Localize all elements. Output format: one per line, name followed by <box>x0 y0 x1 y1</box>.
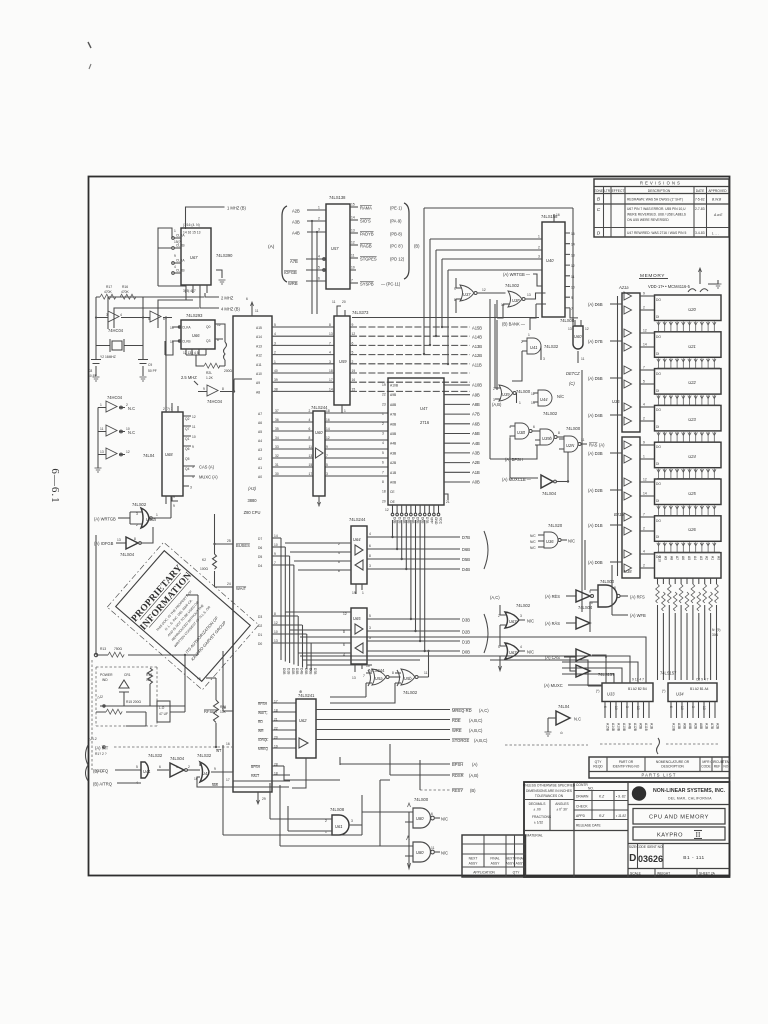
svg-text:1: 1 <box>643 455 645 459</box>
svg-text:12: 12 <box>482 288 486 292</box>
svg-text:20: 20 <box>382 499 386 503</box>
svg-text:1: 1 <box>274 360 276 364</box>
svg-text:1.2K: 1.2K <box>206 376 214 380</box>
svg-text:11: 11 <box>571 275 575 279</box>
svg-text:A3B: A3B <box>677 723 681 730</box>
svg-text:74HC04: 74HC04 <box>108 328 124 333</box>
svg-text:16: 16 <box>226 742 230 746</box>
svg-text:NEXT: NEXT <box>506 857 515 861</box>
svg-text:U3F: U3F <box>512 298 520 303</box>
svg-text:12: 12 <box>192 415 196 419</box>
svg-text:13: 13 <box>274 639 278 643</box>
svg-text:19: 19 <box>352 591 356 595</box>
svg-text:B1 A2 B1 A4: B1 A2 B1 A4 <box>690 687 709 691</box>
svg-text:(B): (B) <box>470 788 476 793</box>
svg-text:10K: 10K <box>220 710 227 714</box>
svg-text:A0B: A0B <box>472 480 480 485</box>
svg-text:(A) MUXCLB —: (A) MUXCLB — <box>502 477 532 482</box>
svg-text:U68: U68 <box>165 452 173 457</box>
svg-text:9: 9 <box>352 323 354 327</box>
svg-text:A12: A12 <box>256 354 262 358</box>
svg-text:74HC04: 74HC04 <box>107 395 123 400</box>
svg-text:U47: U47 <box>420 406 428 411</box>
svg-text:6: 6 <box>369 544 371 548</box>
svg-text:(A) D1B: (A) D1B <box>588 523 603 528</box>
svg-text:9: 9 <box>643 441 645 445</box>
svg-text:17: 17 <box>226 778 230 782</box>
svg-text:4: 4 <box>274 332 276 336</box>
svg-text:HALT: HALT <box>251 774 259 778</box>
svg-text:R.Z: R.Z <box>599 814 605 818</box>
svg-text:DRAWN: DRAWN <box>576 795 589 799</box>
svg-text:A8B: A8B <box>390 403 397 407</box>
svg-text:5: 5 <box>318 266 320 270</box>
svg-text:7: 7 <box>274 561 276 565</box>
svg-text:74HC04: 74HC04 <box>207 399 223 404</box>
svg-text:2: 2 <box>352 360 354 364</box>
svg-text:KAYPRO: KAYPRO <box>657 833 683 839</box>
svg-text:RDSR: RDSR <box>452 773 464 778</box>
svg-text:R26: R26 <box>220 705 226 709</box>
svg-text:D7: D7 <box>258 537 262 541</box>
svg-text:2: 2 <box>382 422 384 426</box>
svg-text:△J2: △J2 <box>97 695 103 699</box>
svg-text:U67: U67 <box>190 255 198 260</box>
svg-text:74LS08: 74LS08 <box>560 318 575 323</box>
svg-text:A1B: A1B <box>650 723 654 730</box>
svg-text:CAS (A): CAS (A) <box>199 465 215 470</box>
svg-text:A2B: A2B <box>390 461 397 465</box>
svg-text:MREQ·RD: MREQ·RD <box>452 708 472 713</box>
svg-text:3| 5| 4| 7: 3| 5| 4| 7 <box>183 289 196 293</box>
svg-text:22: 22 <box>382 393 386 397</box>
svg-text:DO: DO <box>656 335 661 339</box>
svg-text:A7: A7 <box>258 412 262 416</box>
svg-text:15: 15 <box>352 387 356 391</box>
svg-text:DESCRIPTION: DESCRIPTION <box>648 189 671 193</box>
svg-text:D0B: D0B <box>393 517 397 524</box>
svg-text:3: 3 <box>326 472 328 476</box>
svg-text:(A) D2B: (A) D2B <box>588 488 603 493</box>
svg-text:D3B: D3B <box>407 517 411 524</box>
svg-text:DI: DI <box>656 425 659 429</box>
svg-text:11: 11 <box>255 309 259 313</box>
svg-text:A3B: A3B <box>390 451 397 455</box>
svg-text:8: 8 <box>134 537 136 541</box>
svg-text:12: 12 <box>126 450 130 454</box>
svg-text:(A) WRTGB: (A) WRTGB <box>94 517 116 522</box>
svg-text:A10: A10 <box>658 556 662 562</box>
svg-text:U40: U40 <box>546 258 554 263</box>
svg-text:74LS157: 74LS157 <box>598 672 615 677</box>
svg-text:U23: U23 <box>688 417 696 422</box>
svg-text:A9B: A9B <box>472 392 480 397</box>
svg-text:• 11.82: • 11.82 <box>616 814 626 818</box>
svg-text:18: 18 <box>382 490 386 494</box>
svg-text:DO: DO <box>656 445 661 449</box>
svg-text:4: 4 <box>343 653 345 657</box>
svg-text:C8: C8 <box>88 369 92 373</box>
svg-text:II: II <box>696 831 701 839</box>
svg-text:U20: U20 <box>688 307 696 312</box>
svg-text:74LS04: 74LS04 <box>578 605 593 610</box>
svg-text:APPLICATION: APPLICATION <box>473 871 495 875</box>
svg-text:A9: A9 <box>663 556 667 560</box>
svg-text:74LS157: 74LS157 <box>660 671 677 676</box>
svg-text:11: 11 <box>332 300 336 304</box>
svg-text:(A,B,C): (A,B,C) <box>474 738 488 743</box>
svg-text:MREQ: MREQ <box>258 747 268 751</box>
svg-text:12: 12 <box>571 264 575 268</box>
svg-text:3: 3 <box>538 255 540 259</box>
svg-text:WRE: WRE <box>452 728 462 733</box>
svg-text:R2L: R2L <box>206 371 212 375</box>
svg-text:5: 5 <box>352 351 354 355</box>
svg-text:A4: A4 <box>693 556 697 560</box>
svg-text:D1B: D1B <box>286 668 290 675</box>
svg-text:2.5 MHZ: 2.5 MHZ <box>181 375 197 380</box>
svg-text:7: 7 <box>643 366 645 370</box>
svg-text:RAGB: RAGB <box>360 244 372 249</box>
svg-text:15: 15 <box>309 463 313 467</box>
svg-text:9: 9 <box>326 445 328 449</box>
svg-text:D1B: D1B <box>397 517 401 524</box>
svg-text:U41: U41 <box>530 345 538 350</box>
svg-text:14: 14 <box>329 387 333 391</box>
svg-text:A8B: A8B <box>699 723 703 730</box>
svg-text:RD: RD <box>258 720 263 724</box>
svg-text:(A,C): (A,C) <box>479 708 489 713</box>
svg-text:3: 3 <box>318 228 320 232</box>
svg-text:(*): (*) <box>596 689 599 693</box>
svg-text:8: 8 <box>329 323 331 327</box>
svg-text:U39: U39 <box>502 392 510 397</box>
svg-text:Q1: Q1 <box>185 437 190 441</box>
svg-text:N/C: N/C <box>441 851 448 856</box>
svg-text:8: 8 <box>392 671 394 675</box>
svg-text:A3B: A3B <box>472 451 480 456</box>
svg-text:23: 23 <box>382 402 386 406</box>
svg-text:6: 6 <box>603 706 607 708</box>
svg-text:A14B: A14B <box>472 335 482 340</box>
svg-text:3: 3 <box>369 564 371 568</box>
svg-text:WAIT: WAIT <box>236 586 247 591</box>
svg-text:MUXC (A): MUXC (A) <box>199 475 218 480</box>
svg-text:D5B: D5B <box>304 668 308 675</box>
svg-text:(A) RĖS: (A) RĖS <box>545 594 560 599</box>
svg-text:74LS02: 74LS02 <box>132 502 147 507</box>
svg-text:SYSPB: SYSPB <box>360 282 374 287</box>
svg-text:3: 3 <box>329 360 331 364</box>
svg-text:D6B: D6B <box>462 547 470 552</box>
svg-text:WERE REVERSED. U68 / U58 LABEL: WERE REVERSED. U68 / U58 LABELS <box>627 213 687 217</box>
svg-text:A10B: A10B <box>622 723 626 732</box>
svg-text:DATE: DATE <box>696 189 705 193</box>
svg-text:REQD: REQD <box>593 765 603 769</box>
svg-text:2 MHZ: 2 MHZ <box>221 296 234 301</box>
svg-text:(A): (A) <box>472 762 478 767</box>
svg-text:74LS02: 74LS02 <box>505 283 520 288</box>
svg-text:A9B: A9B <box>390 393 397 397</box>
svg-text:Q7: Q7 <box>185 427 190 431</box>
svg-text:12: 12 <box>385 508 389 512</box>
svg-text:2: 2 <box>318 217 320 221</box>
svg-text:A0: A0 <box>717 556 721 560</box>
svg-text:8: 8 <box>614 586 616 590</box>
svg-text:ASSY: ASSY <box>516 862 526 866</box>
svg-text:D2B: D2B <box>291 668 295 675</box>
svg-text:12: 12 <box>326 436 330 440</box>
svg-text:7: 7 <box>643 513 645 517</box>
svg-text:1: 1 <box>362 591 364 595</box>
svg-text:3: 3 <box>382 432 384 436</box>
svg-text:74LS00: 74LS00 <box>516 389 531 394</box>
svg-text:ITEM: ITEM <box>722 760 730 764</box>
svg-text:A15B: A15B <box>472 326 482 331</box>
svg-text:D2B: D2B <box>402 517 406 524</box>
svg-text:6: 6 <box>533 425 535 429</box>
svg-text:35: 35 <box>275 427 279 431</box>
svg-text:U60: U60 <box>574 334 582 339</box>
svg-text:14: 14 <box>326 427 330 431</box>
svg-text:6: 6 <box>669 706 673 708</box>
svg-text:A3: A3 <box>699 556 703 560</box>
svg-text:13: 13 <box>309 454 313 458</box>
svg-text:CPU AND MEMORY: CPU AND MEMORY <box>649 815 709 821</box>
svg-text:IDENTIFYING NO: IDENTIFYING NO <box>613 765 640 769</box>
svg-text:VPP: VPP <box>430 517 434 524</box>
svg-text:17: 17 <box>309 472 313 476</box>
svg-text:8: 8 <box>274 612 276 616</box>
svg-text:SHEET 2A: SHEET 2A <box>699 872 716 876</box>
svg-text:U67 PIN 7 WAS ERROR. U55 PIN 1: U67 PIN 7 WAS ERROR. U55 PIN 10,U <box>627 207 686 211</box>
svg-text:A1: A1 <box>711 556 715 560</box>
svg-text:11: 11 <box>192 425 196 429</box>
svg-text:CHECK: CHECK <box>576 805 588 809</box>
svg-text:APPROVED: APPROVED <box>708 189 727 193</box>
svg-text:A10B: A10B <box>617 723 621 732</box>
svg-text:IND: IND <box>102 678 108 682</box>
svg-text:(A) ĪNT: (A) ĪNT <box>95 746 109 751</box>
svg-text:3: 3 <box>625 706 629 708</box>
svg-text:U39b: U39b <box>542 436 553 441</box>
svg-text:18: 18 <box>326 409 330 413</box>
svg-text:31: 31 <box>275 463 279 467</box>
svg-text:6—6.1: 6—6.1 <box>49 468 61 503</box>
svg-text:ASSY: ASSY <box>506 862 516 866</box>
svg-text:A5B: A5B <box>639 723 643 730</box>
svg-text:4: 4 <box>369 532 371 536</box>
svg-text:U60: U60 <box>315 430 323 435</box>
svg-text:FRACTIONS: FRACTIONS <box>532 815 552 819</box>
svg-text:ASSY: ASSY <box>469 862 479 866</box>
svg-text:A3: A3 <box>258 448 262 452</box>
svg-text:14 16 15 13: 14 16 15 13 <box>183 231 201 235</box>
svg-text:MFR: MFR <box>702 760 710 764</box>
svg-text:9: 9 <box>192 445 194 449</box>
svg-text:DO: DO <box>656 408 661 412</box>
svg-text:D7B: D7B <box>425 517 429 524</box>
svg-text:U22: U22 <box>688 380 696 385</box>
svg-text:D2: D2 <box>258 624 262 628</box>
svg-text:14: 14 <box>571 243 575 247</box>
svg-text:74LS138: 74LS138 <box>329 195 346 200</box>
svg-text:BPSH: BPSH <box>251 765 261 769</box>
svg-text:(A) WFB: (A) WFB <box>630 613 646 618</box>
svg-text:12: 12 <box>643 329 647 333</box>
svg-text:U33: U33 <box>607 692 615 697</box>
svg-text:DI: DI <box>656 462 659 466</box>
svg-text:DEL MAR, CALIFORNIA: DEL MAR, CALIFORNIA <box>668 797 712 801</box>
svg-text:D4: D4 <box>258 564 262 568</box>
svg-text:4: 4 <box>520 645 522 649</box>
svg-text:A13: A13 <box>256 344 262 348</box>
svg-text:U37: U37 <box>463 292 471 297</box>
svg-text:LTR: LTR <box>604 189 611 193</box>
svg-text:17: 17 <box>329 378 333 382</box>
svg-text:12: 12 <box>274 621 278 625</box>
svg-text:U67: U67 <box>509 619 517 624</box>
svg-text:24: 24 <box>227 582 231 586</box>
svg-text:ASSY: ASSY <box>491 862 501 866</box>
svg-text:(A) D0B: (A) D0B <box>588 560 603 565</box>
svg-text:A6: A6 <box>681 556 685 560</box>
svg-text:U36: U36 <box>546 539 554 544</box>
svg-text:13: 13 <box>568 327 572 331</box>
svg-text:VDD·17• • MCM4116-5: VDD·17• • MCM4116-5 <box>648 284 691 289</box>
svg-text:14: 14 <box>351 216 355 220</box>
svg-text:74LS04: 74LS04 <box>120 552 135 557</box>
svg-text:7: 7 <box>382 470 384 474</box>
svg-text:B21a: B21a <box>614 512 624 517</box>
svg-text:4: 4 <box>643 550 645 554</box>
svg-text:6: 6 <box>431 812 433 816</box>
svg-text:33: 33 <box>275 445 279 449</box>
svg-text:9: 9 <box>174 254 176 258</box>
svg-text:18: 18 <box>329 369 333 373</box>
svg-text:CONTR: CONTR <box>576 783 588 787</box>
svg-text:A5: A5 <box>258 430 262 434</box>
svg-text:11: 11 <box>581 438 585 442</box>
svg-text:U80: U80 <box>416 850 424 855</box>
svg-text:N/C: N/C <box>568 539 575 544</box>
svg-text:5: 5 <box>274 323 276 327</box>
svg-text:U61: U61 <box>335 824 343 829</box>
svg-text:D5B: D5B <box>462 557 470 562</box>
svg-text:2: 2 <box>643 306 645 310</box>
svg-text:A1B: A1B <box>390 471 397 475</box>
svg-text:NLS: NLS <box>633 792 645 798</box>
svg-text:Q0: Q0 <box>206 325 211 329</box>
svg-text:15: 15 <box>571 232 575 236</box>
svg-text:47 UF: 47 UF <box>159 712 168 716</box>
svg-text:A0: A0 <box>258 475 262 479</box>
svg-text:A12B: A12B <box>633 723 637 732</box>
svg-text:N/C: N/C <box>527 650 534 655</box>
svg-text:A7: A7 <box>675 556 679 560</box>
svg-text:(PA·9): (PA·9) <box>390 219 402 224</box>
svg-text:3: 3 <box>369 626 371 630</box>
svg-text:30Ω: 30Ω <box>712 633 719 637</box>
svg-text:3: 3 <box>493 398 495 402</box>
svg-text:N/C: N/C <box>530 546 536 550</box>
svg-text:13: 13 <box>100 450 104 454</box>
svg-text:U5a: U5a <box>375 676 383 681</box>
svg-text:U24: U24 <box>688 454 696 459</box>
svg-text:13: 13 <box>571 253 575 257</box>
svg-text:A2B: A2B <box>292 209 300 214</box>
svg-text:A8: A8 <box>256 390 260 394</box>
svg-text:D5B: D5B <box>416 517 420 524</box>
svg-text:1: 1 <box>176 765 178 769</box>
svg-text:QTY: QTY <box>595 760 603 764</box>
svg-text:19: 19 <box>382 383 386 387</box>
svg-text:D0B: D0B <box>462 650 470 655</box>
svg-text:BPSH: BPSH <box>452 762 463 767</box>
svg-text:DIMENSIONS ARE IN INCHES: DIMENSIONS ARE IN INCHES <box>526 789 573 793</box>
svg-text:A9B: A9B <box>688 723 692 730</box>
svg-text:B.W.B: B.W.B <box>712 197 722 201</box>
svg-text:DI: DI <box>656 352 659 356</box>
svg-text:CLKA: CLKA <box>176 259 185 263</box>
svg-text:A12B: A12B <box>472 353 482 358</box>
svg-text:NON-LINEAR SYSTEMS, INC.: NON-LINEAR SYSTEMS, INC. <box>653 788 726 794</box>
svg-text:74LS32: 74LS32 <box>544 344 559 349</box>
svg-text:A9B: A9B <box>683 723 687 730</box>
svg-text:SCALE: SCALE <box>630 872 642 876</box>
svg-text:A10: A10 <box>256 372 262 376</box>
svg-text:A7B: A7B <box>290 259 298 264</box>
svg-text:CLKB: CLKB <box>176 244 185 248</box>
svg-text:PART OR: PART OR <box>619 760 634 764</box>
svg-text:15(?): 15(?) <box>174 240 182 244</box>
svg-text:12: 12 <box>585 327 589 331</box>
svg-text:6: 6 <box>318 277 320 281</box>
svg-text:DI: DI <box>656 315 659 319</box>
svg-text:A7B: A7B <box>472 412 480 417</box>
svg-text:11: 11 <box>581 357 585 361</box>
svg-text:8: 8 <box>222 387 224 391</box>
svg-text:3: 3 <box>691 706 695 708</box>
svg-text:2: 2 <box>309 409 311 413</box>
svg-text:L . . .: L . . . <box>712 232 719 236</box>
svg-text:DETCZ: DETCZ <box>566 371 580 376</box>
svg-text:14: 14 <box>643 492 647 496</box>
svg-text:2-7-83: 2-7-83 <box>695 207 705 211</box>
svg-text:U44: U44 <box>540 397 548 402</box>
svg-text:6: 6 <box>309 427 311 431</box>
svg-text:12: 12 <box>643 478 647 482</box>
svg-text:(A): (A) <box>599 443 605 448</box>
svg-text:(PD 12): (PD 12) <box>390 257 405 262</box>
svg-text:5: 5 <box>382 451 384 455</box>
svg-text:74LS244: 74LS244 <box>368 668 385 673</box>
svg-text:39: 39 <box>274 378 278 382</box>
svg-text:U41: U41 <box>143 769 151 774</box>
svg-text:WEIGHT: WEIGHT <box>657 872 670 876</box>
svg-text:U47 REWIRED: WAS 2716 / WAS PI: U47 REWIRED: WAS 2716 / WAS PIN 5 <box>627 231 686 235</box>
svg-text:1: 1 <box>344 409 346 413</box>
svg-text:NO: NO <box>723 765 728 769</box>
svg-text:A6B: A6B <box>390 422 397 426</box>
svg-text:13: 13 <box>636 706 640 710</box>
svg-text:11: 11 <box>309 445 313 449</box>
svg-text:D: D <box>597 231 601 237</box>
svg-text:CLKA: CLKA <box>182 326 191 330</box>
svg-text:8: 8 <box>369 554 371 558</box>
svg-text:(A) D6B: (A) D6B <box>588 302 603 307</box>
svg-text:U67: U67 <box>509 650 517 655</box>
